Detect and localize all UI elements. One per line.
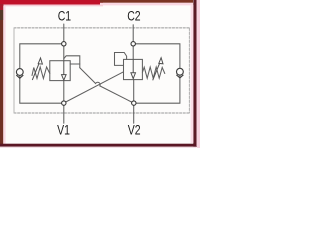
decorative red page frame (not labelled further)	[0, 0, 103, 5]
enclosure dashed box bottom edge	[14, 112, 189, 114]
pilot connector U1 body to stub	[70, 63, 80, 65]
wire C1 port line down to valve V1a top	[63, 24, 65, 61]
adjustment arrow of spring U1	[32, 58, 42, 80]
spring of valve U1	[32, 67, 50, 79]
node D (V2 junction)	[132, 101, 136, 105]
enclosure box right edge	[188, 28, 190, 113]
schematic group (softened)	[14, 8, 189, 138]
enclosure box left edge	[13, 28, 15, 113]
svg-text:V2: V2	[128, 122, 141, 138]
adjustment arrow of spring U2	[153, 58, 163, 81]
node C (V1 junction)	[62, 101, 66, 105]
enclosure dashed box top edge	[14, 27, 189, 29]
valve U2 right counterbalance valve body	[124, 59, 143, 79]
wire right check-valve branch (node B - right - down - node D)	[133, 44, 180, 103]
pilot line of valve U1 (loop to right of body)	[64, 56, 80, 68]
svg-text:V1: V1	[57, 122, 70, 138]
pilot line of valve U2 (loop to left of body)	[115, 53, 127, 66]
spring of valve U2	[142, 67, 164, 78]
pilot cross line D2 from U2 body to node C	[64, 72, 124, 103]
node A (C1 junction)	[62, 42, 66, 46]
wire right valve bottom to V2 port	[133, 79, 135, 123]
svg-text:C2: C2	[127, 8, 141, 24]
wire C2 port line down to valve V1b top	[132, 25, 134, 60]
page background	[0, 0, 200, 148]
flow arrow inside valve U1	[62, 61, 67, 80]
flow arrow inside valve U2	[131, 59, 136, 78]
svg-text:C1: C1	[58, 8, 72, 24]
wire left check-valve branch (node A - left - down - node C)	[20, 44, 64, 103]
valve U1 left counterbalance valve body	[50, 61, 70, 81]
node B (C2 junction)	[131, 42, 135, 46]
check valve CV1 (left) ball and seat	[16, 69, 23, 79]
wire left valve bottom to V1 port	[63, 80, 65, 123]
check valve CV2 (right) ball and seat	[176, 68, 183, 78]
pilot cross line D1 from U1 pilot to node D (with hop over D2)	[80, 68, 134, 103]
